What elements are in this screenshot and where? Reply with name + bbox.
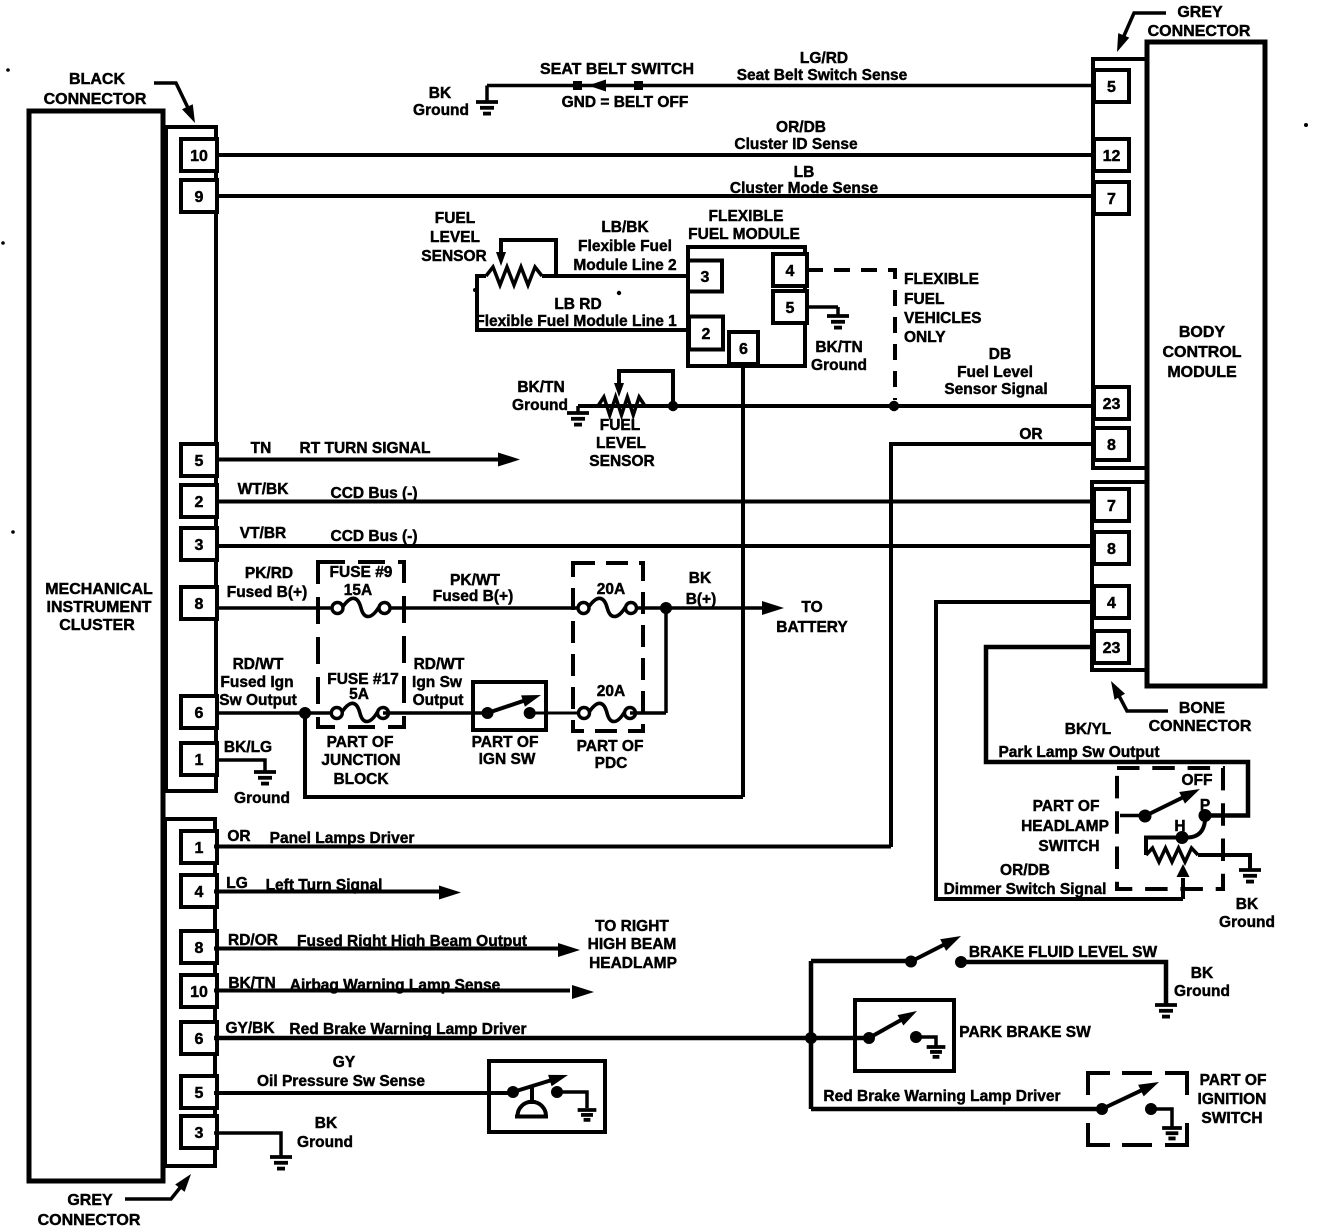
ignition sw blade xyxy=(1102,1089,1145,1109)
svg-text:5: 5 xyxy=(195,453,204,470)
svg-text:TN: TN xyxy=(251,440,272,457)
BCM grey connector pin 5 xyxy=(1094,70,1129,102)
brake fluid sw contact left xyxy=(905,956,917,968)
svg-text:6: 6 xyxy=(195,1031,204,1048)
speck xyxy=(11,530,15,534)
BCM grey connector pin 12 xyxy=(1094,139,1129,171)
headlamp sw pivot xyxy=(1139,810,1152,823)
svg-text:Ign Sw: Ign Sw xyxy=(412,674,463,691)
wire PDC lower fuse to node xyxy=(630,711,666,715)
wire OR panel lamps driver xyxy=(214,845,891,849)
svg-text:6: 6 xyxy=(739,341,748,358)
svg-text:GND = BELT OFF: GND = BELT OFF xyxy=(562,94,689,111)
svg-text:5: 5 xyxy=(786,300,795,317)
speck xyxy=(6,68,10,72)
cluster grey connector pin 6 xyxy=(181,1022,217,1054)
arrow left turn signal xyxy=(439,886,461,900)
junction brake node xyxy=(805,1032,817,1044)
wire cluster ID sense xyxy=(216,153,1094,157)
svg-text:IGN SW: IGN SW xyxy=(479,751,536,768)
wire wiper loop R1 xyxy=(501,240,556,276)
svg-text:BK: BK xyxy=(1236,896,1259,913)
wire BK/TN airbag warning lamp sense xyxy=(214,989,570,993)
arrow to battery xyxy=(762,601,784,615)
svg-text:SEAT BELT SWITCH: SEAT BELT SWITCH xyxy=(540,61,694,78)
svg-text:OR/DB: OR/DB xyxy=(1000,862,1050,879)
wire BK/LG ground xyxy=(216,760,265,771)
wire ign sw to PDC fuse xyxy=(530,712,584,715)
svg-text:Dimmer Switch Signal: Dimmer Switch Signal xyxy=(944,881,1107,898)
cluster grey connector pin 3 xyxy=(181,1116,217,1148)
svg-text:CCD Bus (-): CCD Bus (-) xyxy=(331,485,418,502)
wire red brake warning to ignition sw xyxy=(811,1107,1102,1112)
wire fused B(+) xyxy=(216,606,666,610)
wire wiper loop R2 xyxy=(619,371,673,406)
svg-text:FUEL MODULE: FUEL MODULE xyxy=(688,226,800,243)
svg-text:PART OF: PART OF xyxy=(1200,1072,1267,1089)
wiper arrow R2 xyxy=(614,383,624,397)
svg-text:LEVEL: LEVEL xyxy=(596,435,646,452)
svg-text:Seat Belt Switch Sense: Seat Belt Switch Sense xyxy=(737,67,908,84)
cluster grey connector pin 8 xyxy=(181,931,217,963)
svg-text:PK/RD: PK/RD xyxy=(245,565,293,582)
cluster black connector pin 10 xyxy=(181,139,217,171)
svg-text:CCD Bus (-): CCD Bus (-) xyxy=(331,528,418,545)
wire flexible fuel module line 1 xyxy=(477,276,688,330)
ground (FFM pin 5 BK/TN) xyxy=(827,314,849,318)
svg-text:Cluster Mode Sense: Cluster Mode Sense xyxy=(730,180,879,197)
wire headlamp pivot stub xyxy=(1120,814,1145,818)
svg-text:INSTRUMENT: INSTRUMENT xyxy=(47,599,152,616)
svg-text:BK: BK xyxy=(429,85,452,102)
cluster grey connector pin 5 xyxy=(181,1076,217,1108)
wire seat belt switch sense xyxy=(487,84,1094,88)
cluster grey connector pin 4 xyxy=(181,875,217,907)
wire H to dimmer resistor xyxy=(1146,838,1176,856)
svg-text:4: 4 xyxy=(1107,595,1116,612)
wire B(+) node down xyxy=(664,608,668,713)
park brake blade xyxy=(869,1018,905,1038)
FFM pin 4 xyxy=(773,254,807,286)
svg-text:LEVEL: LEVEL xyxy=(430,229,480,246)
svg-text:HEADLAMP: HEADLAMP xyxy=(589,955,677,972)
svg-text:MECHANICAL: MECHANICAL xyxy=(45,581,153,598)
BCM bone connector pin 8 xyxy=(1094,532,1129,564)
ign sw contact left xyxy=(482,707,494,719)
FFM pin 6 xyxy=(729,332,758,364)
junction block dashed box xyxy=(318,562,404,727)
junction ign output node xyxy=(299,707,311,719)
svg-text:BLACK: BLACK xyxy=(69,71,125,88)
svg-text:7: 7 xyxy=(1107,498,1116,515)
cluster black connector pin 8 xyxy=(181,587,217,619)
wire fused ign sw output xyxy=(216,711,336,715)
svg-text:Ground: Ground xyxy=(811,357,867,374)
svg-text:PART OF: PART OF xyxy=(472,734,539,751)
svg-text:PART OF: PART OF xyxy=(327,734,394,751)
svg-text:2: 2 xyxy=(702,326,711,343)
BCM grey connector pin 8 xyxy=(1094,428,1129,460)
svg-text:HIGH BEAM: HIGH BEAM xyxy=(588,936,677,953)
svg-text:3: 3 xyxy=(195,537,204,554)
speck xyxy=(1304,123,1308,127)
BCM bone connector pin 4 xyxy=(1094,586,1129,618)
wire GY oil pressure sw sense xyxy=(214,1091,513,1095)
svg-text:1: 1 xyxy=(195,840,204,857)
park brake switch box xyxy=(855,1000,954,1071)
junction wiper R2 xyxy=(668,401,678,411)
part of headlamp switch dashed box xyxy=(1117,768,1223,889)
oil pressure diaphragm xyxy=(530,1086,534,1104)
svg-text:HEADLAMP: HEADLAMP xyxy=(1021,818,1109,835)
svg-text:Output: Output xyxy=(413,692,464,709)
svg-text:CONTROL: CONTROL xyxy=(1162,344,1241,361)
svg-text:BK/TN: BK/TN xyxy=(517,379,564,396)
svg-text:FLEXIBLE: FLEXIBLE xyxy=(709,208,784,225)
svg-text:BK/YL: BK/YL xyxy=(1065,721,1112,738)
wire GY/BK red brake warning lamp driver xyxy=(214,1036,869,1041)
arrow airbag xyxy=(572,985,594,999)
svg-text:LG: LG xyxy=(226,875,248,892)
svg-text:CONNECTOR: CONNECTOR xyxy=(1148,23,1251,40)
wire LG left turn signal xyxy=(214,890,440,894)
ground (fuel sensor BK/TN) xyxy=(576,406,580,412)
svg-text:1: 1 xyxy=(195,752,204,769)
svg-text:Left Turn Signal: Left Turn Signal xyxy=(266,877,383,894)
wire to brake fluid level sw xyxy=(811,959,911,964)
ground (cluster pin1 BK/LG) xyxy=(254,770,276,774)
svg-text:23: 23 xyxy=(1103,396,1121,413)
svg-text:GREY: GREY xyxy=(67,1192,113,1209)
svg-text:PDC: PDC xyxy=(595,755,628,772)
grey connector strip (BCM) xyxy=(1093,59,1147,468)
wire park brake to ground xyxy=(916,1037,936,1046)
svg-text:Module Line 2: Module Line 2 xyxy=(573,257,676,274)
brake fluid sw blade xyxy=(911,942,949,961)
fuel level sensor resistor R2 xyxy=(598,397,645,415)
svg-text:8: 8 xyxy=(1107,437,1116,454)
svg-text:BK: BK xyxy=(689,570,712,587)
svg-text:FUSE #9: FUSE #9 xyxy=(330,564,393,581)
bone connector strip (BCM) xyxy=(1092,482,1147,670)
headlamp sw blade xyxy=(1145,796,1186,816)
wire FFM pin 4 (flexible fuel vehicles only, dashed) xyxy=(807,270,895,400)
svg-text:VT/BR: VT/BR xyxy=(240,525,287,542)
wire FFM pin 5 to ground xyxy=(807,305,838,309)
cluster black connector pin 1 xyxy=(181,743,217,775)
svg-text:Ground: Ground xyxy=(297,1134,353,1151)
svg-text:LB/BK: LB/BK xyxy=(601,219,649,236)
ground (park brake) xyxy=(927,1045,946,1049)
svg-text:Red Brake Warning Lamp Driver: Red Brake Warning Lamp Driver xyxy=(289,1021,526,1038)
svg-text:Ground: Ground xyxy=(512,397,568,414)
BCM bone connector pin 7 xyxy=(1094,489,1129,521)
svg-text:6: 6 xyxy=(195,705,204,722)
svg-text:JUNCTION: JUNCTION xyxy=(321,752,400,769)
svg-text:5: 5 xyxy=(195,1085,204,1102)
svg-text:5A: 5A xyxy=(349,686,369,703)
svg-text:23: 23 xyxy=(1103,640,1121,657)
svg-text:BK: BK xyxy=(1191,965,1214,982)
wire BK/YL park lamp sw output xyxy=(986,647,1248,816)
svg-text:Fuel Level: Fuel Level xyxy=(957,364,1033,381)
svg-text:10: 10 xyxy=(190,984,208,1001)
fuse PDC 20A lower xyxy=(584,710,630,716)
svg-text:TO RIGHT: TO RIGHT xyxy=(595,918,669,935)
svg-text:WT/BK: WT/BK xyxy=(238,481,290,498)
BCM grey connector pin 23 xyxy=(1094,387,1129,419)
svg-text:DB: DB xyxy=(989,346,1011,363)
cluster grey connector pin 10 xyxy=(181,975,217,1007)
svg-text:LB RD: LB RD xyxy=(554,296,601,313)
svg-text:BK: BK xyxy=(315,1115,338,1132)
wire ignition sw to ground xyxy=(1151,1109,1172,1127)
wire OR panel lamps (right) xyxy=(891,444,1094,847)
svg-text:Fused Right High Beam Output: Fused Right High Beam Output xyxy=(297,933,527,950)
svg-text:SWITCH: SWITCH xyxy=(1038,838,1099,855)
PDC dashed box xyxy=(573,563,643,731)
headlamp H contact xyxy=(1176,831,1189,844)
FFM pin 5 xyxy=(773,291,807,323)
svg-text:LB: LB xyxy=(794,164,815,181)
wire RT turn signal xyxy=(216,458,500,462)
svg-text:BRAKE FLUID LEVEL SW: BRAKE FLUID LEVEL SW xyxy=(969,944,1158,961)
svg-text:SENSOR: SENSOR xyxy=(421,248,486,265)
oil pressure blade xyxy=(513,1079,554,1092)
svg-text:Sensor Signal: Sensor Signal xyxy=(944,381,1047,398)
svg-text:Flexible Fuel: Flexible Fuel xyxy=(578,238,672,255)
svg-text:5: 5 xyxy=(1107,79,1116,96)
ground (ignition sw) xyxy=(1162,1126,1182,1130)
ground (oil pressure) xyxy=(578,1108,597,1112)
ignition sw contact right xyxy=(1145,1103,1157,1115)
wire oil pressure to ground xyxy=(558,1092,588,1108)
svg-text:FLEXIBLE: FLEXIBLE xyxy=(904,271,979,288)
svg-text:Red Brake Warning Lamp Driver: Red Brake Warning Lamp Driver xyxy=(823,1088,1060,1105)
svg-text:Flexible Fuel Module Line 1: Flexible Fuel Module Line 1 xyxy=(475,313,677,330)
park brake contact right xyxy=(910,1031,922,1043)
svg-text:Park Lamp Sw Output: Park Lamp Sw Output xyxy=(998,744,1159,761)
svg-text:Fused B(+): Fused B(+) xyxy=(433,588,514,605)
svg-text:CONNECTOR: CONNECTOR xyxy=(38,1212,141,1229)
cluster black connector pin 3 xyxy=(181,528,217,560)
svg-text:9: 9 xyxy=(195,189,204,206)
ground (seat belt BK) xyxy=(485,86,489,102)
svg-text:Cluster ID Sense: Cluster ID Sense xyxy=(734,136,858,153)
svg-text:PART OF: PART OF xyxy=(577,738,644,755)
svg-text:8: 8 xyxy=(1107,541,1116,558)
wire brake fluid sw to ground xyxy=(961,962,1166,1004)
cluster black connector pin 9 xyxy=(181,180,217,212)
svg-text:GY: GY xyxy=(333,1054,356,1071)
svg-text:LG/RD: LG/RD xyxy=(800,50,848,67)
park brake contact left xyxy=(863,1032,875,1044)
part of ignition switch dashed box xyxy=(1088,1073,1110,1095)
speck xyxy=(1,241,5,245)
svg-text:RT TURN SIGNAL: RT TURN SIGNAL xyxy=(300,440,431,457)
svg-text:8: 8 xyxy=(195,596,204,613)
svg-text:Fused Ign: Fused Ign xyxy=(220,674,293,691)
oil pressure contact right xyxy=(551,1086,563,1098)
fuse F9 15A xyxy=(338,605,385,611)
svg-text:PK/WT: PK/WT xyxy=(450,572,500,589)
black connector strip xyxy=(166,127,216,791)
fuse F17 5A xyxy=(337,710,383,716)
ground (brake fluid BK) xyxy=(1155,1003,1177,1007)
svg-text:BONE: BONE xyxy=(1179,700,1226,717)
svg-text:OR: OR xyxy=(227,828,250,845)
svg-text:GY/BK: GY/BK xyxy=(225,1020,275,1037)
ign sw blade xyxy=(488,700,528,714)
svg-text:Fused B(+): Fused B(+) xyxy=(227,584,308,601)
wire P to H curve xyxy=(1188,821,1205,838)
oil pressure switch box xyxy=(489,1061,605,1132)
svg-text:12: 12 xyxy=(1103,148,1121,165)
wire fuse17 to ign sw xyxy=(383,711,487,715)
svg-text:CONNECTOR: CONNECTOR xyxy=(1149,718,1252,735)
ground (headlamp BK) xyxy=(1239,868,1261,872)
svg-text:4: 4 xyxy=(195,884,204,901)
wire RD/OR fused right high beam xyxy=(214,947,558,951)
headlamp P contact xyxy=(1199,809,1212,822)
ignition sw contact left xyxy=(1096,1103,1108,1115)
ignition switch box xyxy=(473,682,546,730)
svg-text:SWITCH: SWITCH xyxy=(1201,1110,1262,1127)
svg-text:Ground: Ground xyxy=(413,102,469,119)
oil pressure contact left xyxy=(507,1086,519,1098)
dimmer resistor R3 xyxy=(1146,848,1198,862)
svg-text:FUEL: FUEL xyxy=(904,291,944,308)
wire dimmer resistor to ground xyxy=(1198,855,1250,869)
junction FFM pin4 to sensor signal xyxy=(889,401,899,411)
svg-text:PARK BRAKE SW: PARK BRAKE SW xyxy=(959,1024,1091,1041)
svg-text:Sw Output: Sw Output xyxy=(219,692,297,709)
cluster black connector pin 5 xyxy=(181,444,217,476)
svg-text:MODULE: MODULE xyxy=(1167,364,1237,381)
svg-text:BATTERY: BATTERY xyxy=(776,619,848,636)
svg-text:BK/TN: BK/TN xyxy=(228,975,275,992)
wire flexible fuel module line 2 xyxy=(542,274,688,278)
svg-text:BK/LG: BK/LG xyxy=(224,739,272,756)
BCM grey connector pin 7 xyxy=(1094,182,1129,214)
svg-text:7: 7 xyxy=(1107,191,1116,208)
svg-text:RD/WT: RD/WT xyxy=(414,656,465,673)
arrow RT turn signal xyxy=(498,453,520,467)
svg-text:CLUSTER: CLUSTER xyxy=(59,617,135,634)
svg-text:GREY: GREY xyxy=(1177,4,1223,21)
svg-text:TO: TO xyxy=(801,599,822,616)
svg-text:Ground: Ground xyxy=(1219,914,1275,931)
cluster black connector pin 6 xyxy=(181,696,217,728)
svg-text:CONNECTOR: CONNECTOR xyxy=(44,91,147,108)
wire brake node vertical xyxy=(809,961,814,1109)
svg-text:3: 3 xyxy=(195,1125,204,1142)
svg-text:Oil Pressure Sw Sense: Oil Pressure Sw Sense xyxy=(257,1073,425,1090)
brake fluid sw contact right xyxy=(955,956,967,968)
svg-text:Panel Lamps Driver: Panel Lamps Driver xyxy=(270,830,415,847)
ground (cluster pin3 BK) xyxy=(270,1155,292,1159)
speck xyxy=(617,291,621,295)
svg-text:FUEL: FUEL xyxy=(435,210,475,227)
svg-text:RD/WT: RD/WT xyxy=(233,656,284,673)
body control module box xyxy=(1147,42,1265,686)
wire ign node down to FFM pin6 xyxy=(305,713,743,797)
wiper arrow R1 xyxy=(496,252,506,266)
svg-text:ONLY: ONLY xyxy=(904,329,946,346)
svg-text:IGNITION: IGNITION xyxy=(1198,1091,1267,1108)
svg-text:FUEL: FUEL xyxy=(600,417,640,434)
speck xyxy=(473,288,477,292)
svg-text:BLOCK: BLOCK xyxy=(333,771,389,788)
fuel level sensor resistor R1 xyxy=(486,267,542,285)
arrow high beam xyxy=(558,943,580,957)
wire CCD bus (-) VT/BR xyxy=(216,544,1092,548)
ign sw contact right xyxy=(524,707,536,719)
svg-text:10: 10 xyxy=(190,148,208,165)
svg-text:3: 3 xyxy=(701,269,710,286)
svg-text:RD/OR: RD/OR xyxy=(228,932,278,949)
svg-text:2: 2 xyxy=(195,494,204,511)
dimmer wiper arrow xyxy=(1181,878,1185,899)
svg-text:BK/TN: BK/TN xyxy=(815,339,862,356)
svg-text:20A: 20A xyxy=(597,683,625,700)
svg-text:PART OF: PART OF xyxy=(1033,798,1100,815)
svg-text:OFF: OFF xyxy=(1182,772,1213,789)
svg-text:20A: 20A xyxy=(597,581,625,598)
cluster grey connector pin 1 xyxy=(181,831,217,863)
svg-text:VEHICLES: VEHICLES xyxy=(904,310,982,327)
svg-text:15A: 15A xyxy=(344,582,372,599)
seat belt switch symbol xyxy=(573,81,582,90)
wire CCD bus (-) WT/BK xyxy=(216,500,1092,504)
svg-text:Airbag Warning Lamp Sense: Airbag Warning Lamp Sense xyxy=(290,977,501,994)
svg-text:SENSOR: SENSOR xyxy=(589,453,654,470)
svg-text:OR/DB: OR/DB xyxy=(776,119,826,136)
svg-text:Ground: Ground xyxy=(1174,983,1230,1000)
svg-text:OR: OR xyxy=(1019,426,1042,443)
junction B(+) node xyxy=(660,602,672,614)
grey connector strip (cluster) xyxy=(165,819,215,1166)
mechanical instrument cluster box xyxy=(29,111,163,1181)
wire BK ground (pin3) xyxy=(214,1133,281,1156)
BCM bone connector pin 23 xyxy=(1094,631,1129,663)
fuse PDC 20A upper xyxy=(584,605,632,611)
svg-text:BODY: BODY xyxy=(1179,324,1226,341)
wire FFM pin 6 down xyxy=(741,366,745,797)
wire OR/DB dimmer switch signal xyxy=(936,602,1183,899)
svg-text:Ground: Ground xyxy=(234,790,290,807)
svg-text:B(+): B(+) xyxy=(686,591,717,608)
wire to battery xyxy=(666,606,762,610)
wire cluster mode sense xyxy=(216,194,1094,198)
FFM pin 3 xyxy=(688,261,722,292)
svg-text:4: 4 xyxy=(786,263,795,280)
flexible fuel module box U2 xyxy=(688,247,805,366)
cluster black connector pin 2 xyxy=(181,485,217,517)
svg-text:8: 8 xyxy=(195,940,204,957)
wire DB fuel level sensor signal xyxy=(578,404,1094,408)
FFM pin 2 xyxy=(689,317,723,350)
